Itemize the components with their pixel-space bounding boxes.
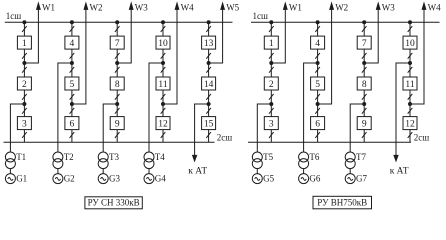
disconnector (above breaker 1) bbox=[22, 26, 27, 32]
wire: feeder W2 branch bbox=[72, 9, 86, 104]
svg-text:W4: W4 bbox=[428, 2, 441, 12]
wire: branch to autotransformer (к АТ) bbox=[195, 104, 209, 156]
breaker 15 bbox=[202, 117, 216, 130]
breaker 2 bbox=[264, 77, 278, 90]
junction: string 4-6 at bus 1сш bbox=[70, 21, 73, 24]
svg-text:G1: G1 bbox=[16, 173, 27, 183]
breaker 9 bbox=[357, 117, 371, 130]
wire: main string (breakers 7-9) bbox=[116, 22, 118, 142]
svg-text:8: 8 bbox=[115, 80, 120, 90]
svg-text:G4: G4 bbox=[155, 173, 166, 183]
svg-text:G5: G5 bbox=[263, 173, 274, 183]
breaker 3 bbox=[17, 117, 31, 130]
disconnector (below breaker 14) bbox=[206, 94, 211, 100]
wire: T7 to G7 bbox=[349, 169, 351, 174]
disconnector (above breaker 13) bbox=[206, 26, 211, 32]
svg-text:6: 6 bbox=[315, 119, 320, 129]
disconnector (above breaker 6) bbox=[315, 108, 320, 114]
wire: T1 to G1 bbox=[9, 169, 11, 174]
disconnector (below breaker 1) bbox=[22, 53, 27, 59]
disconnector (above breaker 7) bbox=[115, 26, 120, 32]
svg-text:W5: W5 bbox=[226, 2, 239, 12]
wire: transformer T6 branch bbox=[304, 63, 318, 152]
arrow: feeder W4 bbox=[422, 3, 426, 9]
generator G2 bbox=[53, 174, 63, 184]
transformer T2 bbox=[53, 152, 63, 169]
junction: string 10-12 at bus 1сш bbox=[162, 21, 165, 24]
svg-text:1сш: 1сш bbox=[253, 11, 268, 21]
wire: main string (breakers 1-3) bbox=[23, 22, 25, 142]
disconnector (below breaker 12) bbox=[161, 132, 166, 138]
disconnector (below breaker 13) bbox=[206, 53, 211, 59]
breaker 8 bbox=[110, 77, 124, 90]
disconnector (above breaker 2) bbox=[269, 67, 274, 73]
svg-text:W3: W3 bbox=[135, 2, 148, 12]
disconnector (above breaker 12) bbox=[161, 108, 166, 114]
svg-text:1сш: 1сш bbox=[6, 11, 21, 21]
svg-text:6: 6 bbox=[70, 119, 75, 129]
svg-text:14: 14 bbox=[204, 80, 214, 90]
breaker 11 bbox=[403, 77, 417, 90]
wire: main string (breakers 1-3) bbox=[270, 22, 272, 142]
disconnector (below breaker 8) bbox=[362, 94, 367, 100]
svg-text:10: 10 bbox=[158, 39, 168, 49]
junction: string 13-15 at bus 1сш bbox=[207, 21, 210, 24]
generator G6 bbox=[299, 174, 309, 184]
breaker 4 bbox=[65, 36, 79, 49]
svg-text:10: 10 bbox=[405, 39, 415, 49]
junction: lower tap of string 1-3 bbox=[23, 103, 26, 106]
svg-text:12: 12 bbox=[158, 119, 168, 129]
svg-text:9: 9 bbox=[115, 119, 120, 129]
breaker 5 bbox=[65, 77, 79, 90]
junction: upper tap of string 7-9 bbox=[363, 62, 366, 65]
breaker 2 bbox=[17, 77, 31, 90]
svg-text:3: 3 bbox=[22, 119, 27, 129]
junction: upper tap of string 10-12 bbox=[409, 62, 412, 65]
disconnector (below breaker 3) bbox=[22, 132, 27, 138]
svg-text:12: 12 bbox=[405, 119, 415, 129]
arrow: feeder W5 bbox=[221, 3, 225, 9]
breaker 4 bbox=[311, 36, 325, 49]
svg-text:3: 3 bbox=[269, 119, 274, 129]
wire: T5 to G5 bbox=[256, 169, 258, 174]
generator G3 bbox=[98, 174, 108, 184]
disconnector (below breaker 5) bbox=[70, 94, 75, 100]
disconnector (above breaker 11) bbox=[161, 67, 166, 73]
disconnector (above breaker 6) bbox=[70, 108, 75, 114]
junction: lower tap of string 4-6 bbox=[70, 103, 73, 106]
wire: transformer T3 branch bbox=[103, 104, 117, 152]
wire: feeder W1 branch bbox=[271, 9, 285, 63]
disconnector (above breaker 15) bbox=[206, 108, 211, 114]
breaker 11 bbox=[156, 77, 170, 90]
svg-text:W2: W2 bbox=[90, 2, 103, 12]
disconnector (below breaker 11) bbox=[161, 94, 166, 100]
junction: upper tap of string 4-6 bbox=[70, 62, 73, 65]
svg-text:T7: T7 bbox=[356, 152, 366, 162]
wire: feeder W3 branch bbox=[364, 9, 378, 63]
wire: main string (breakers 10-12) bbox=[162, 22, 164, 142]
junction: upper tap of string 13-15 bbox=[207, 62, 210, 65]
junction: string 7-9 at bus 1сш bbox=[116, 21, 119, 24]
transformer T4 bbox=[144, 152, 154, 169]
bus 1сш bbox=[251, 21, 440, 23]
arrow: к АТ bbox=[394, 155, 398, 161]
wire: T4 to G4 bbox=[148, 169, 150, 174]
breaker 12 bbox=[156, 117, 170, 130]
disconnector (below breaker 11) bbox=[408, 94, 413, 100]
wire: feeder W4 branch bbox=[410, 9, 424, 104]
disconnector (above breaker 4) bbox=[315, 26, 320, 32]
wire: main string (breakers 13-15) bbox=[208, 22, 210, 142]
label box: РУ ВН750кВ bbox=[313, 196, 372, 209]
transformer T7 bbox=[345, 152, 355, 169]
disconnector (below breaker 8) bbox=[115, 94, 120, 100]
svg-text:W1: W1 bbox=[42, 2, 55, 12]
svg-text:РУ СН 330кВ: РУ СН 330кВ bbox=[88, 198, 140, 208]
disconnector (above breaker 7) bbox=[362, 26, 367, 32]
wire: transformer T4 branch bbox=[149, 63, 163, 152]
generator G1 bbox=[5, 174, 15, 184]
wire: feeder W5 branch bbox=[209, 9, 223, 63]
svg-text:11: 11 bbox=[405, 80, 414, 90]
disconnector (below breaker 9) bbox=[115, 132, 120, 138]
wire: feeder W3 branch bbox=[117, 9, 131, 63]
junction: upper tap of string 1-3 bbox=[23, 62, 26, 65]
junction: lower tap of string 4-6 bbox=[316, 103, 319, 106]
svg-text:15: 15 bbox=[204, 119, 214, 129]
disconnector (above breaker 10) bbox=[408, 26, 413, 32]
disconnector (below breaker 5) bbox=[315, 94, 320, 100]
disconnector (below breaker 4) bbox=[70, 53, 75, 59]
svg-text:5: 5 bbox=[70, 80, 75, 90]
arrow: feeder W2 bbox=[330, 3, 334, 9]
generator G4 bbox=[144, 174, 154, 184]
junction: string 7-9 at bus 1сш bbox=[363, 21, 366, 24]
disconnector (below breaker 2) bbox=[22, 94, 27, 100]
svg-text:T2: T2 bbox=[64, 152, 74, 162]
svg-text:T5: T5 bbox=[263, 152, 273, 162]
disconnector (above breaker 4) bbox=[70, 26, 75, 32]
svg-text:5: 5 bbox=[315, 80, 320, 90]
junction: lower tap of string 7-9 bbox=[116, 103, 119, 106]
junction: lower tap of string 1-3 bbox=[270, 103, 273, 106]
disconnector (above breaker 12) bbox=[408, 108, 413, 114]
label box: РУ СН 330кВ bbox=[85, 197, 142, 209]
arrow: feeder W1 bbox=[37, 3, 41, 9]
svg-text:G2: G2 bbox=[64, 173, 75, 183]
wire: feeder W1 branch bbox=[24, 9, 38, 63]
disconnector (above breaker 8) bbox=[115, 67, 120, 73]
svg-text:G3: G3 bbox=[109, 173, 120, 183]
disconnector (below breaker 6) bbox=[315, 132, 320, 138]
wire: T2 to G2 bbox=[57, 169, 59, 174]
junction: upper tap of string 7-9 bbox=[116, 62, 119, 65]
arrow: feeder W4 bbox=[175, 3, 179, 9]
disconnector (below breaker 15) bbox=[206, 132, 211, 138]
svg-text:2: 2 bbox=[22, 80, 27, 90]
junction: string 4-6 at bus 1сш bbox=[316, 21, 319, 24]
disconnector (above breaker 9) bbox=[115, 108, 120, 114]
breaker 14 bbox=[202, 77, 216, 90]
svg-text:к АТ: к АТ bbox=[390, 166, 409, 176]
disconnector (below breaker 10) bbox=[161, 53, 166, 59]
svg-text:W1: W1 bbox=[289, 2, 302, 12]
wire: transformer T1 branch bbox=[10, 104, 24, 152]
transformer T3 bbox=[98, 152, 108, 169]
svg-text:W4: W4 bbox=[181, 2, 194, 12]
disconnector (above breaker 2) bbox=[22, 67, 27, 73]
disconnector (below breaker 6) bbox=[70, 132, 75, 138]
disconnector (below breaker 7) bbox=[115, 53, 120, 59]
svg-text:T3: T3 bbox=[109, 152, 119, 162]
generator G5 bbox=[252, 174, 262, 184]
disconnector (below breaker 2) bbox=[269, 94, 274, 100]
arrow: feeder W2 bbox=[84, 3, 88, 9]
junction: string 10-12 at bus 1сш bbox=[409, 21, 412, 24]
wire: main string (breakers 4-6) bbox=[71, 22, 73, 142]
wire: transformer T5 branch bbox=[257, 104, 271, 152]
junction: string 1-3 at bus 1сш bbox=[23, 21, 26, 24]
breaker 10 bbox=[403, 36, 417, 49]
breaker 1 bbox=[17, 36, 31, 49]
disconnector (above breaker 3) bbox=[269, 108, 274, 114]
wire: main string (breakers 4-6) bbox=[317, 22, 319, 142]
wire: transformer T7 branch bbox=[350, 104, 364, 152]
disconnector (below breaker 9) bbox=[362, 132, 367, 138]
svg-text:G7: G7 bbox=[356, 173, 367, 183]
svg-text:T1: T1 bbox=[16, 152, 26, 162]
breaker 8 bbox=[357, 77, 371, 90]
disconnector (above breaker 8) bbox=[362, 67, 367, 73]
breaker 13 bbox=[202, 36, 216, 49]
disconnector (above breaker 5) bbox=[315, 67, 320, 73]
wire: feeder W2 branch bbox=[318, 9, 332, 104]
junction: lower tap of string 10-12 bbox=[409, 103, 412, 106]
svg-text:2: 2 bbox=[269, 80, 274, 90]
breaker 6 bbox=[311, 117, 325, 130]
disconnector (below breaker 1) bbox=[269, 53, 274, 59]
svg-text:2сш: 2сш bbox=[414, 133, 429, 143]
transformer T6 bbox=[299, 152, 309, 169]
svg-text:4: 4 bbox=[315, 39, 320, 49]
junction: string 1-3 at bus 1сш bbox=[270, 21, 273, 24]
arrow: feeder W3 bbox=[129, 3, 133, 9]
junction: lower tap of string 7-9 bbox=[363, 103, 366, 106]
wire: feeder W4 branch bbox=[163, 9, 177, 104]
arrow: к АТ bbox=[193, 155, 197, 161]
breaker 7 bbox=[357, 36, 371, 49]
wire: main string (breakers 10-12) bbox=[409, 22, 411, 142]
junction: upper tap of string 10-12 bbox=[162, 62, 165, 65]
disconnector (below breaker 4) bbox=[315, 53, 320, 59]
svg-text:1: 1 bbox=[269, 39, 274, 49]
breaker 10 bbox=[156, 36, 170, 49]
svg-text:T4: T4 bbox=[155, 152, 165, 162]
svg-text:W2: W2 bbox=[335, 2, 348, 12]
breaker 7 bbox=[110, 36, 124, 49]
bus 1сш bbox=[5, 21, 233, 23]
disconnector (above breaker 9) bbox=[362, 108, 367, 114]
wire: main string (breakers 7-9) bbox=[363, 22, 365, 142]
svg-text:4: 4 bbox=[70, 39, 75, 49]
junction: lower tap of string 13-15 bbox=[207, 103, 210, 106]
junction: upper tap of string 4-6 bbox=[316, 62, 319, 65]
transformer T1 bbox=[5, 152, 15, 169]
breaker 5 bbox=[311, 77, 325, 90]
disconnector (above breaker 1) bbox=[269, 26, 274, 32]
svg-text:7: 7 bbox=[362, 39, 367, 49]
wire: transformer T2 branch bbox=[58, 63, 72, 152]
wire: branch to autotransformer (к АТ) bbox=[396, 63, 410, 156]
svg-text:T6: T6 bbox=[309, 152, 319, 162]
junction: lower tap of string 10-12 bbox=[162, 103, 165, 106]
svg-text:13: 13 bbox=[204, 39, 214, 49]
breaker 1 bbox=[264, 36, 278, 49]
svg-text:9: 9 bbox=[362, 119, 367, 129]
disconnector (above breaker 14) bbox=[206, 67, 211, 73]
svg-text:11: 11 bbox=[158, 80, 167, 90]
svg-text:2сш: 2сш bbox=[217, 133, 232, 143]
arrow: feeder W3 bbox=[376, 3, 380, 9]
svg-text:РУ ВН750кВ: РУ ВН750кВ bbox=[317, 198, 367, 208]
junction: upper tap of string 1-3 bbox=[270, 62, 273, 65]
generator G7 bbox=[345, 174, 355, 184]
disconnector (above breaker 3) bbox=[22, 108, 27, 114]
svg-text:1: 1 bbox=[22, 39, 27, 49]
transformer T5 bbox=[252, 152, 262, 169]
wire: T3 to G3 bbox=[102, 169, 104, 174]
disconnector (below breaker 7) bbox=[362, 53, 367, 59]
breaker 12 bbox=[403, 117, 417, 130]
disconnector (below breaker 10) bbox=[408, 53, 413, 59]
svg-text:8: 8 bbox=[362, 80, 367, 90]
breaker 6 bbox=[65, 117, 79, 130]
breaker 3 bbox=[264, 117, 278, 130]
disconnector (below breaker 3) bbox=[269, 132, 274, 138]
disconnector (above breaker 10) bbox=[161, 26, 166, 32]
wire: T6 to G6 bbox=[303, 169, 305, 174]
disconnector (above breaker 11) bbox=[408, 67, 413, 73]
svg-text:7: 7 bbox=[115, 39, 120, 49]
breaker 9 bbox=[110, 117, 124, 130]
svg-text:G6: G6 bbox=[309, 173, 320, 183]
svg-text:W3: W3 bbox=[382, 2, 395, 12]
bus 2сш bbox=[4, 141, 215, 143]
disconnector (below breaker 12) bbox=[408, 132, 413, 138]
disconnector (above breaker 5) bbox=[70, 67, 75, 73]
bus 2сш bbox=[248, 141, 411, 143]
arrow: feeder W1 bbox=[284, 3, 288, 9]
svg-text:к АТ: к АТ bbox=[188, 166, 207, 176]
